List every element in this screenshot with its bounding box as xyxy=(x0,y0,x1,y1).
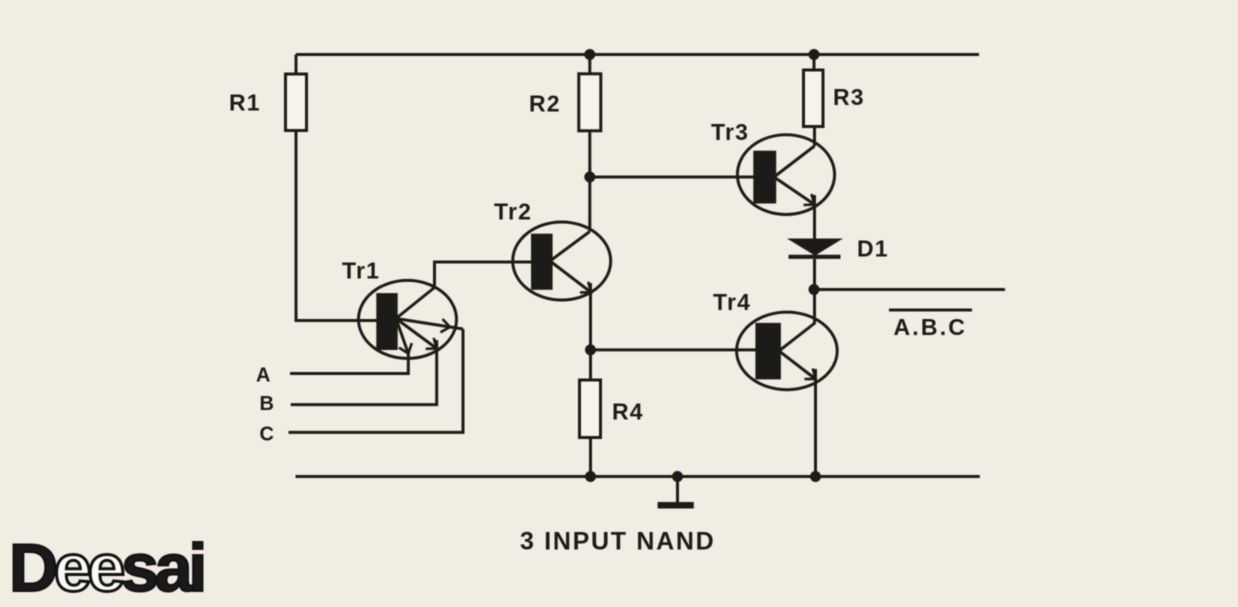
transistor Tr1 xyxy=(359,280,464,358)
wire junction down to R4 xyxy=(589,350,592,380)
svg-text:R1: R1 xyxy=(229,90,261,116)
junction node Tr4 emitter rail xyxy=(810,471,821,482)
junction node top R2 xyxy=(584,49,595,60)
svg-text:C: C xyxy=(260,424,276,446)
resistor R4 xyxy=(580,380,601,438)
svg-text:Tr3: Tr3 xyxy=(711,119,749,145)
svg-text:D1: D1 xyxy=(857,236,889,262)
overline of A.B.C xyxy=(889,309,972,312)
wire Tr1 collector to Tr2 base xyxy=(435,262,534,288)
resistor R1 xyxy=(286,74,307,131)
wire R1 top xyxy=(295,55,298,75)
wire R3 top xyxy=(813,55,816,71)
wire junction to Tr3 base xyxy=(590,176,755,179)
junction node R4 bottom rail xyxy=(585,471,596,482)
svg-text:Tr2: Tr2 xyxy=(494,199,532,225)
transistor Tr4 xyxy=(737,312,838,390)
wire Tr4 emitter to rail xyxy=(814,369,817,477)
wire junction down to Tr4 collector xyxy=(813,290,816,323)
svg-text:3 INPUT NAND: 3 INPUT NAND xyxy=(520,528,715,556)
svg-text:R2: R2 xyxy=(529,91,561,117)
bottom rail xyxy=(296,475,980,478)
wire R2 top xyxy=(588,55,591,74)
transistor Tr3 xyxy=(737,135,834,215)
wire junction down to Tr2 collector xyxy=(588,177,591,232)
wire emitter3 to C xyxy=(289,329,464,432)
output wire xyxy=(814,288,1005,291)
junction node output xyxy=(809,284,820,295)
ground stub xyxy=(676,477,679,503)
wire junction to Tr4 base xyxy=(591,348,758,351)
wire R1 bottom to Tr1 base xyxy=(296,131,378,321)
svg-text:B: B xyxy=(260,393,276,415)
top power rail xyxy=(296,53,979,56)
svg-text:A.B.C: A.B.C xyxy=(894,314,968,340)
wire Tr2 emitter down to junction xyxy=(589,283,592,350)
svg-text:A: A xyxy=(256,365,272,387)
resistor R2 xyxy=(579,74,601,131)
wire R4 bottom to rail xyxy=(589,438,592,477)
svg-text:R4: R4 xyxy=(612,399,644,425)
svg-text:Tr4: Tr4 xyxy=(713,289,751,315)
junction node below R2 xyxy=(584,172,595,183)
wire D1 to output junction xyxy=(813,259,816,290)
wire emitter1 to A xyxy=(290,352,408,374)
svg-text:R3: R3 xyxy=(833,84,865,110)
transistor Tr2 xyxy=(513,222,611,300)
Deesai logo xyxy=(9,529,203,607)
svg-text:Tr1: Tr1 xyxy=(342,258,380,284)
ground bar xyxy=(658,502,694,509)
wire R2 bottom to junction xyxy=(588,131,591,177)
diode D1 xyxy=(789,240,841,257)
wire R3 bottom to Tr3 collector xyxy=(813,127,816,147)
junction node ground xyxy=(672,471,683,482)
junction node top R3 xyxy=(809,49,820,60)
resistor R3 xyxy=(804,70,824,127)
wire emitter2 to B xyxy=(291,340,437,405)
junction node Tr2 emitter xyxy=(585,344,596,355)
wire Tr3 emitter to D1 xyxy=(813,195,816,240)
